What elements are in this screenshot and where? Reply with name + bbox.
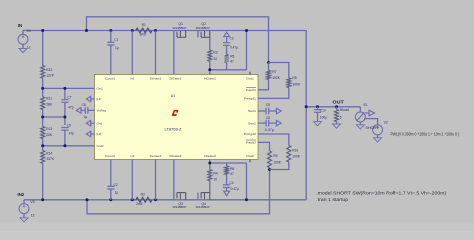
wire	[42, 110, 44, 127]
wire	[42, 163, 44, 199]
svg-text:C4: C4	[229, 181, 233, 185]
wire	[131, 160, 133, 200]
wire	[42, 78, 44, 97]
pin Gnd	[97, 121, 103, 125]
svg-text:100K: 100K	[292, 82, 301, 86]
node IN	[18, 23, 22, 28]
wire	[87, 170, 270, 214]
wire	[270, 162, 289, 170]
wire	[43, 145, 95, 147]
wire junction	[208, 68, 211, 71]
resistor R13	[41, 126, 53, 138]
svg-text:Sense1: Sense1	[150, 76, 162, 80]
net flag pin Gnd	[86, 120, 94, 126]
ground	[374, 138, 382, 142]
IC part number	[165, 127, 183, 131]
svg-text:Sense2: Sense2	[150, 154, 162, 158]
svg-text:100µ: 100µ	[320, 116, 327, 120]
capacitor C8	[76, 103, 94, 119]
wire	[209, 37, 211, 50]
wire	[110, 160, 112, 187]
transistor Q2	[196, 22, 210, 37]
svg-text:Gnd: Gnd	[97, 121, 103, 125]
pin Fault1	[246, 87, 256, 92]
svg-text:C3: C3	[229, 36, 233, 40]
svg-text:V2: V2	[384, 120, 388, 124]
svg-text:In1: In1	[130, 76, 134, 80]
svg-text:47p: 47p	[69, 132, 75, 136]
svg-text:V1: V1	[27, 29, 31, 33]
wire junction	[109, 29, 112, 32]
svg-text:Rload: Rload	[340, 108, 349, 112]
capacitor C3	[223, 36, 238, 49]
wire junction	[245, 198, 248, 201]
wire	[226, 163, 228, 166]
wire junction	[316, 105, 319, 108]
svg-text:47: 47	[230, 172, 234, 176]
svg-text:[L2]: [L2]	[97, 132, 102, 136]
wire	[64, 130, 66, 146]
wire	[258, 88, 289, 99]
wire junction	[41, 87, 66, 147]
wire	[64, 102, 66, 125]
V2 value PWL	[391, 131, 460, 136]
wire	[64, 88, 66, 99]
svg-text:10: 10	[213, 177, 217, 181]
svg-text:2m5: 2m5	[140, 33, 147, 37]
svg-text:[L1]: [L1]	[97, 97, 102, 101]
pin L1	[97, 97, 102, 101]
wire	[226, 45, 228, 54]
svg-text:VinReg: VinReg	[97, 109, 107, 113]
wire	[258, 142, 270, 151]
wire junction	[131, 29, 157, 32]
wire	[43, 87, 95, 89]
resistor R4	[208, 170, 218, 182]
net flag SW1	[224, 32, 230, 42]
resistor R9	[268, 151, 282, 168]
svg-text:0.47µ: 0.47µ	[231, 187, 239, 191]
svg-text:Out2: Out2	[246, 154, 254, 158]
svg-text:Fault1: Fault1	[246, 88, 256, 92]
wire	[258, 80, 269, 90]
capacitor C9	[61, 124, 74, 136]
svg-text:SiS488DP: SiS488DP	[172, 26, 186, 30]
svg-text:100K: 100K	[272, 76, 281, 80]
wire junction	[41, 29, 88, 32]
svg-text:0.47µ: 0.47µ	[230, 45, 238, 49]
svg-text:R11: R11	[46, 97, 52, 101]
svg-text:Cpor1: Cpor1	[105, 76, 115, 80]
svg-text:C2: C2	[114, 183, 118, 187]
svg-text:Pwrgd2: Pwrgd2	[244, 132, 256, 136]
svg-text:C10: C10	[320, 108, 326, 112]
svg-text:137K: 137K	[46, 74, 55, 78]
wire	[42, 31, 44, 66]
svg-text:Swr2: Swr2	[248, 121, 256, 125]
svg-text:.tran 1 startup: .tran 1 startup	[316, 197, 349, 202]
net flag S1 control	[365, 110, 375, 116]
svg-text:1µ: 1µ	[84, 115, 88, 119]
svg-text:LT8708-Z: LT8708-Z	[165, 127, 183, 131]
wire	[209, 181, 211, 193]
svg-text:PWL(0 0.300m 0 +100u 1 + 10m 1: PWL(0 0.300m 0 +100u 1 + 10m 1 +100u 0 )	[391, 131, 460, 136]
wire junction	[41, 198, 88, 201]
pin VinReg	[97, 109, 107, 113]
resistor R8	[287, 76, 301, 88]
wire	[226, 175, 228, 185]
svg-text:C7: C7	[67, 95, 71, 99]
wire junction	[335, 105, 338, 108]
ground	[314, 122, 322, 126]
svg-text:R5: R5	[230, 54, 234, 58]
resistor R12	[41, 66, 55, 79]
wire	[246, 163, 248, 200]
svg-text:2m5: 2m5	[136, 202, 143, 206]
svg-text:Swr1: Swr1	[248, 109, 256, 113]
svg-text:47p: 47p	[68, 105, 74, 109]
switch S1 model label	[365, 126, 378, 130]
wire junction	[305, 105, 308, 108]
wire	[24, 199, 306, 201]
net flag SW2	[224, 188, 230, 196]
ground	[356, 125, 364, 129]
svg-text:C6: C6	[266, 116, 270, 120]
wire junction	[245, 29, 248, 32]
pin Pwrgd1	[244, 97, 256, 101]
svg-text:0.47µ: 0.47µ	[265, 128, 274, 132]
wire junction	[268, 168, 271, 171]
wire	[210, 163, 247, 170]
directive .model	[316, 190, 447, 195]
svg-text:IN2: IN2	[17, 192, 24, 197]
node IN2	[17, 192, 24, 197]
pin Out2	[246, 154, 254, 158]
svg-text:Pwrgd1: Pwrgd1	[244, 97, 256, 101]
resistor R7	[267, 63, 281, 81]
pin Sense1	[150, 76, 162, 80]
svg-text:R4: R4	[213, 171, 217, 175]
svg-text:In2: In2	[130, 154, 134, 158]
pin Ovr1	[97, 86, 104, 90]
svg-text:R6: R6	[230, 167, 234, 171]
transistor Q3	[172, 160, 186, 209]
wire junction	[208, 162, 211, 165]
svg-text:.model SHORT SW(Ron=10m Roff=1: .model SHORT SW(Ron=10m Roff=1.7 Vt=.5 V…	[316, 190, 447, 195]
resistor R3	[208, 50, 218, 61]
capacitor C1	[107, 38, 119, 50]
pin Fault2	[246, 140, 256, 145]
svg-text:R13: R13	[46, 127, 52, 131]
pin L2	[97, 132, 102, 136]
capacitor C4	[223, 181, 239, 191]
svg-text:5: 5	[340, 115, 342, 119]
resistor R10	[287, 146, 301, 163]
svg-text:HGate2: HGate2	[204, 154, 216, 158]
svg-text:R9: R9	[273, 154, 277, 158]
svg-text:R7: R7	[272, 70, 276, 74]
pin HGate1	[204, 76, 216, 80]
wire	[110, 31, 112, 43]
svg-text:12: 12	[27, 46, 31, 50]
svg-text:1µ: 1µ	[115, 191, 119, 195]
wire	[155, 31, 157, 75]
transistor Q4	[196, 193, 210, 209]
svg-text:C9: C9	[67, 124, 71, 128]
pin Out1	[246, 76, 254, 80]
wire	[23, 31, 306, 200]
svg-text:V3: V3	[30, 200, 34, 204]
wire	[131, 31, 133, 75]
pin stubs	[249, 72, 251, 162]
svg-text:20K: 20K	[46, 133, 53, 137]
pin Pwrgd2	[244, 132, 256, 136]
directive .tran	[316, 197, 349, 202]
wire	[269, 63, 289, 79]
pin Cpor2	[105, 154, 115, 158]
wire	[258, 134, 289, 146]
ground	[19, 48, 27, 52]
wire junction	[267, 61, 270, 64]
pin In1	[130, 76, 134, 80]
resistor R6	[225, 166, 235, 176]
wire	[209, 70, 211, 75]
pin HGate2	[204, 154, 216, 158]
svg-text:R3: R3	[213, 50, 217, 54]
wire	[87, 17, 269, 63]
capacitor C6	[258, 116, 281, 132]
capacitor C10	[314, 107, 327, 122]
svg-text:28K: 28K	[46, 102, 53, 106]
svg-text:SiS488DP: SiS488DP	[196, 26, 210, 30]
svg-text:OUT: OUT	[332, 99, 344, 104]
svg-text:R1: R1	[142, 23, 146, 27]
switch S1	[355, 103, 367, 125]
svg-text:SHORT: SHORT	[365, 126, 378, 130]
op-amp U1 body	[95, 75, 259, 160]
pin Swr2	[248, 121, 256, 125]
svg-text:Gnd2: Gnd2	[97, 144, 104, 148]
svg-text:10: 10	[213, 57, 217, 61]
svg-text:R2: R2	[141, 193, 145, 197]
voltage source V3	[19, 200, 35, 218]
resistor R5	[225, 54, 235, 63]
wire	[209, 160, 211, 164]
wire	[364, 119, 378, 125]
resistor R11	[41, 97, 53, 110]
svg-text:100K: 100K	[273, 160, 282, 164]
voltage source V1	[18, 29, 31, 49]
svg-text:DGate2: DGate2	[170, 154, 182, 158]
capacitor C2	[107, 183, 118, 195]
svg-text:12: 12	[31, 213, 35, 217]
pin DGate2	[170, 154, 182, 158]
net flag pin L1	[86, 96, 94, 102]
pin Swr1	[248, 109, 256, 113]
wire	[110, 45, 112, 74]
voltage source V2	[373, 120, 388, 137]
svg-text:R12: R12	[46, 68, 52, 72]
ground	[20, 218, 28, 222]
svg-text:47: 47	[230, 60, 234, 64]
svg-text:100K: 100K	[292, 155, 301, 159]
svg-text:IN: IN	[18, 23, 22, 28]
pin In2	[130, 154, 134, 158]
resistor R14	[41, 151, 55, 164]
wire	[110, 189, 112, 200]
svg-text:137K: 137K	[46, 157, 55, 161]
svg-text:HGate1: HGate1	[204, 76, 216, 80]
pin DGate1	[170, 76, 182, 80]
svg-text:C5: C5	[266, 103, 270, 107]
svg-text:C1: C1	[114, 38, 118, 42]
svg-text:Fault2: Fault2	[246, 141, 256, 145]
resistor R1	[136, 23, 152, 37]
ground	[333, 124, 341, 128]
pin Gnd2	[97, 144, 104, 148]
svg-text:C8: C8	[82, 103, 86, 107]
svg-text:DGate1: DGate1	[170, 76, 182, 80]
transistor Q1	[172, 22, 186, 74]
svg-text:Cpor2: Cpor2	[105, 154, 115, 158]
node OUT	[332, 99, 344, 104]
net flag pin L2	[86, 131, 94, 137]
wire	[210, 61, 247, 70]
svg-text:1µ: 1µ	[115, 46, 119, 50]
capacitor C5	[258, 103, 281, 114]
IC name U1	[171, 94, 176, 98]
pin Sense2	[150, 154, 162, 158]
resistor R2	[136, 193, 152, 207]
svg-text:S1: S1	[363, 103, 367, 107]
svg-text:R10: R10	[292, 148, 298, 152]
svg-text:SiS488DP: SiS488DP	[196, 205, 210, 209]
svg-text:R8: R8	[292, 76, 296, 80]
svg-text:SiS488DP: SiS488DP	[172, 205, 186, 209]
wire	[306, 106, 360, 108]
wire	[246, 31, 248, 70]
wire	[42, 139, 44, 151]
wire	[155, 160, 157, 200]
svg-text:Out1: Out1	[246, 76, 254, 80]
capacitor C7	[61, 95, 73, 109]
wire	[43, 116, 65, 118]
svg-text:Ovr1: Ovr1	[97, 86, 104, 90]
wire	[226, 63, 228, 70]
pin Cpor1	[105, 76, 115, 80]
wire	[269, 168, 271, 170]
resistor Rload	[335, 107, 350, 124]
wire junction	[131, 198, 157, 201]
svg-text:U1: U1	[171, 94, 176, 98]
LT logo	[172, 110, 179, 116]
svg-text:R14: R14	[46, 151, 52, 155]
wire junction	[109, 198, 112, 201]
